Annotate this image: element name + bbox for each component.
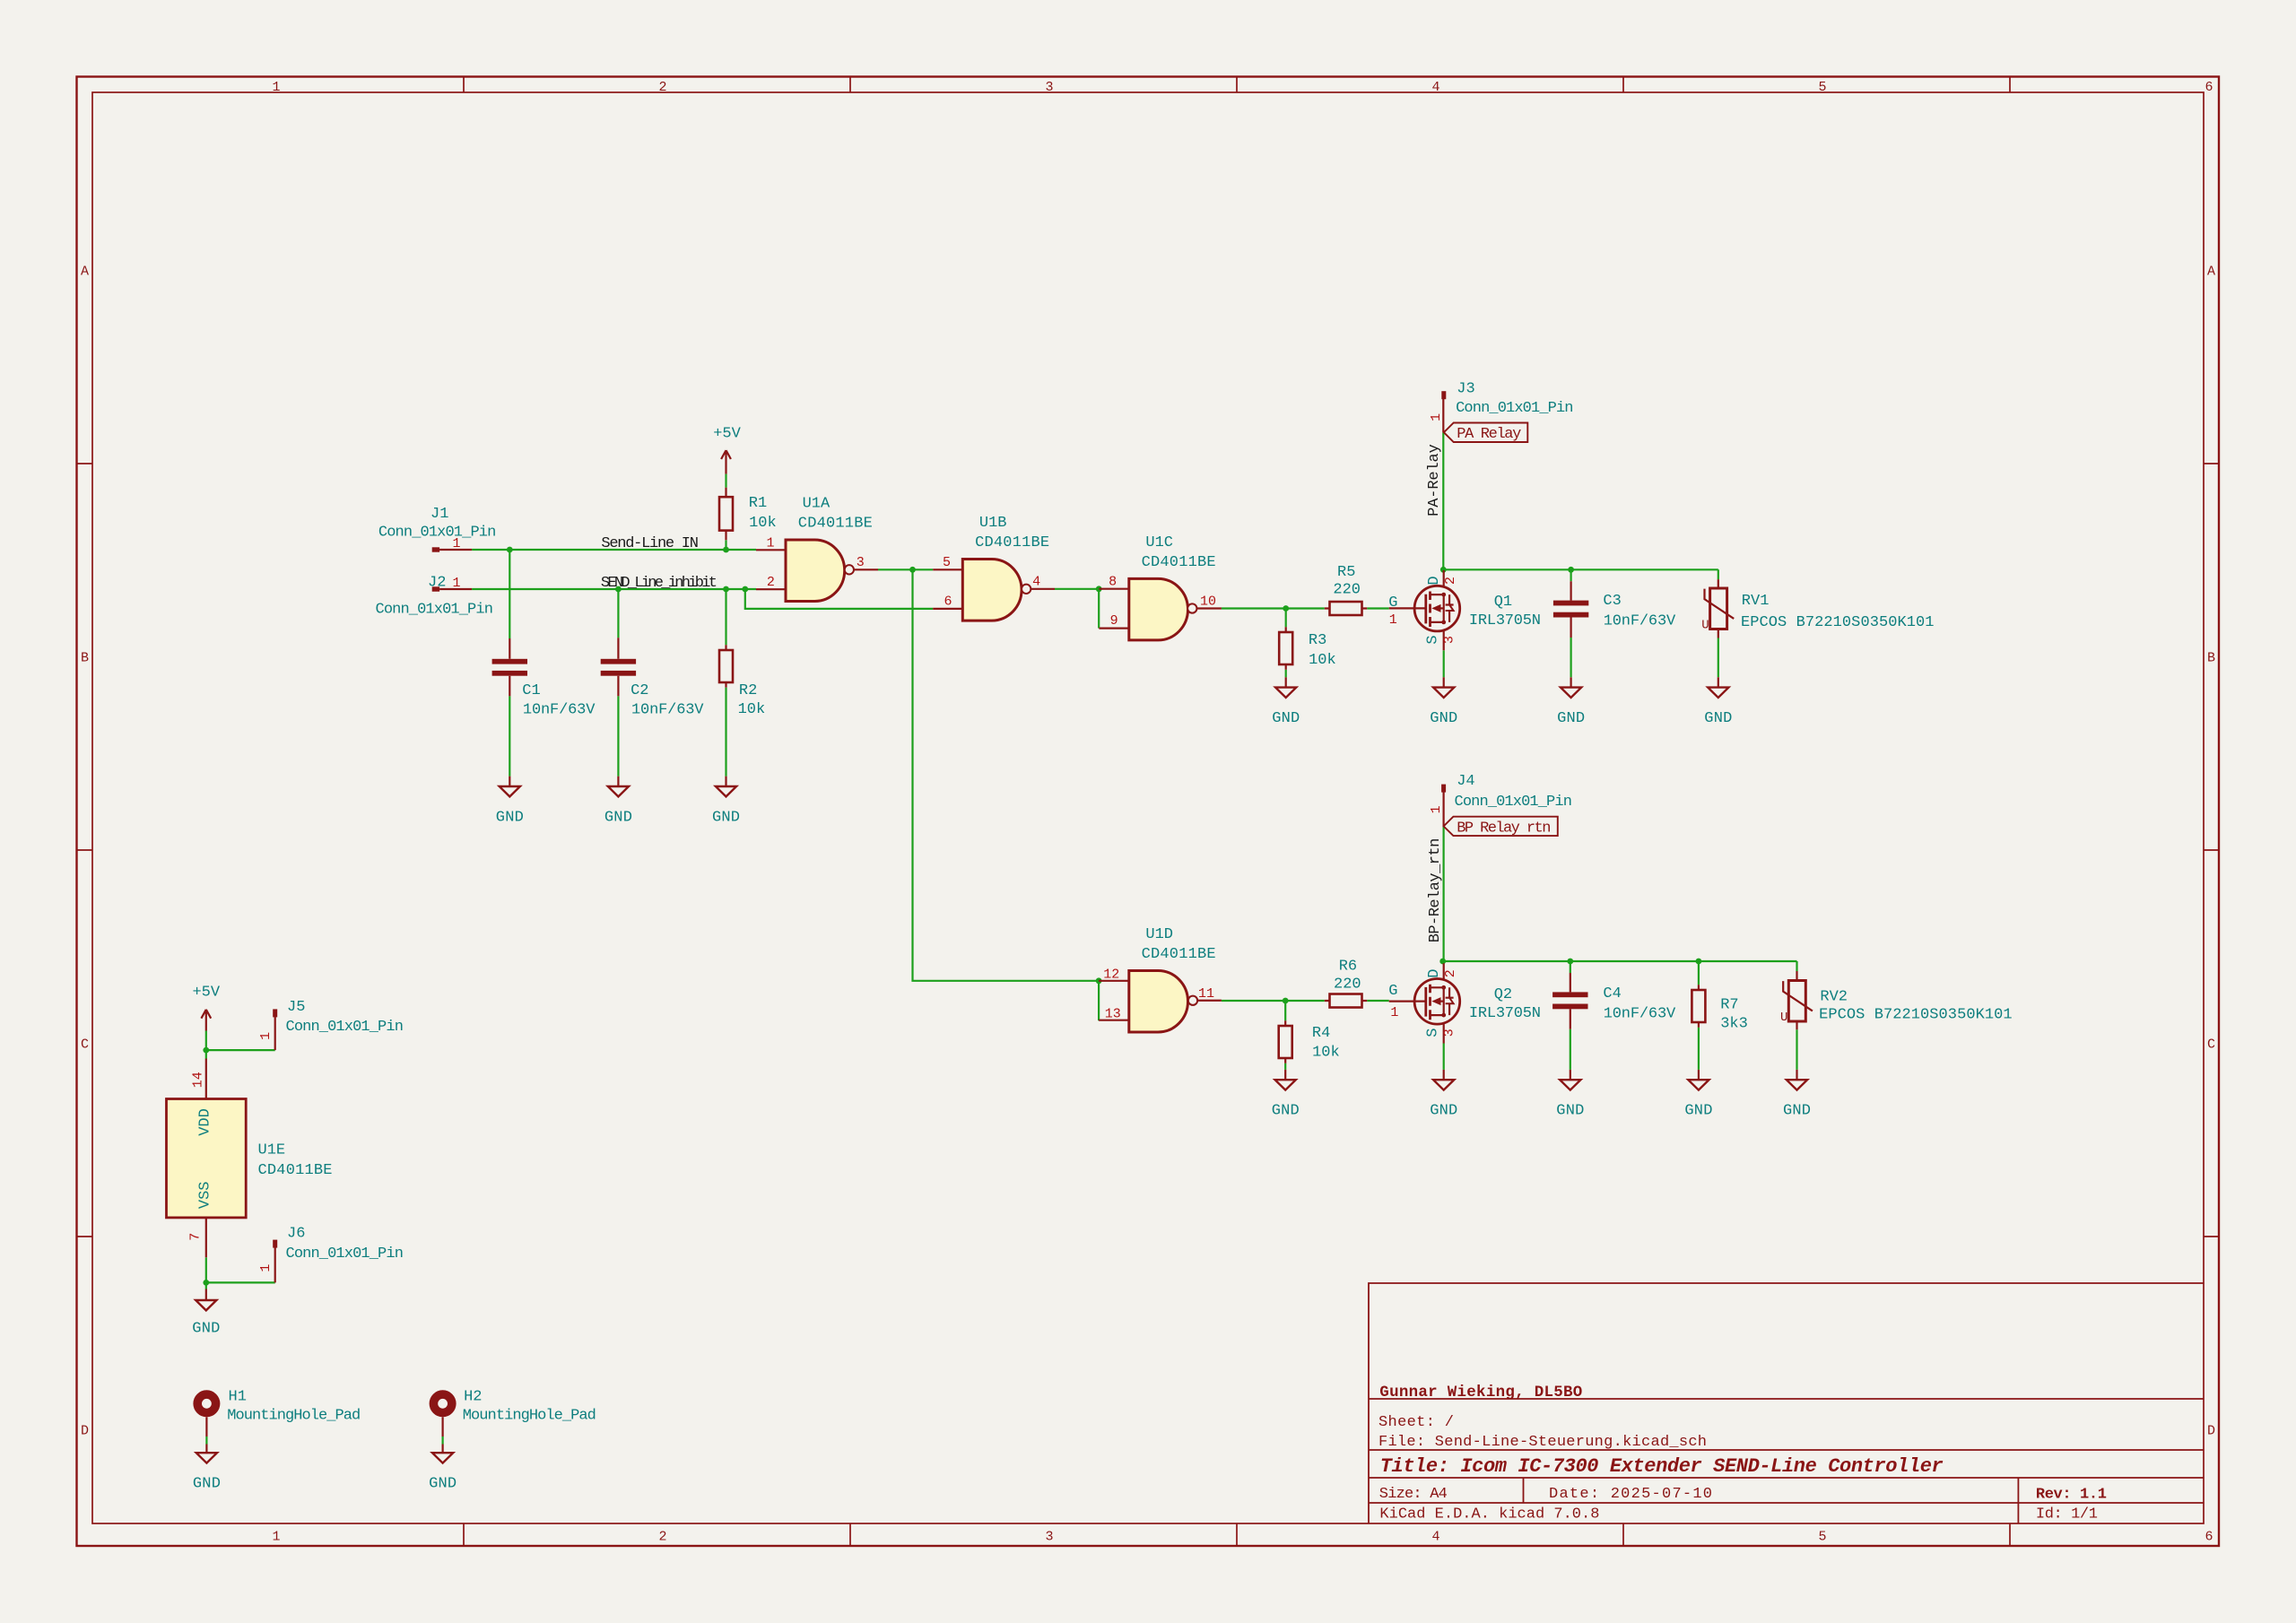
wire vertical to C2 (617, 589, 619, 638)
wire long vertical to U1D (913, 569, 1100, 981)
svg-text:GND: GND (192, 1321, 220, 1338)
svg-text:GND: GND (1556, 1103, 1584, 1120)
svg-text:10nF/63V: 10nF/63V (1604, 1005, 1676, 1022)
wire C3 stubs (1570, 569, 1571, 677)
svg-text:C1: C1 (522, 682, 540, 699)
ground GND (R2) (712, 777, 740, 827)
node junction Q2 drain (1439, 959, 1446, 965)
svg-text:A: A (2207, 265, 2215, 280)
ground GND (C1) (496, 777, 524, 827)
svg-text:R3: R3 (1309, 632, 1326, 649)
NAND gate U1A CD4011BE (756, 495, 878, 601)
svg-text:CD4011BE: CD4011BE (798, 515, 873, 532)
svg-text:VSS: VSS (197, 1181, 214, 1209)
svg-text:R4: R4 (1312, 1025, 1330, 1042)
svg-text:GND: GND (1684, 1103, 1712, 1120)
wire U1D pin13 drop (1098, 981, 1100, 1020)
connector J1 Conn_01x01_Pin (378, 506, 496, 552)
svg-text:5: 5 (1818, 1530, 1826, 1545)
svg-text:D: D (81, 1424, 89, 1439)
svg-text:G: G (1388, 983, 1397, 1000)
wire C4 stubs (1570, 961, 1571, 1070)
svg-text:Send-Line IN: Send-Line IN (601, 535, 699, 552)
connector J6 Conn_01x01_Pin (258, 1226, 404, 1283)
svg-text:J6: J6 (287, 1226, 305, 1243)
svg-text:B: B (81, 651, 89, 666)
svg-text:1: 1 (452, 536, 460, 551)
node junction U1A out (909, 567, 916, 573)
ground GND (RV1) (1704, 677, 1732, 727)
svg-text:J5: J5 (287, 999, 305, 1016)
svg-text:8: 8 (1109, 575, 1117, 590)
svg-text:File: Send-Line-Steuerung.kica: File: Send-Line-Steuerung.kicad_sch (1378, 1434, 1707, 1451)
connector H2 MountingHole_Pad (433, 1389, 596, 1437)
svg-text:Q1: Q1 (1494, 594, 1512, 611)
wire R7 stubs (1698, 961, 1700, 1070)
svg-text:1: 1 (1429, 805, 1444, 813)
power +5V (left) (192, 985, 220, 1031)
svg-text:Conn_01x01_Pin: Conn_01x01_Pin (1455, 794, 1572, 811)
node junction R1 (723, 547, 729, 553)
node junction J5/+5V (203, 1047, 209, 1054)
svg-text:A: A (81, 265, 89, 280)
svg-text:Sheet: /: Sheet: / (1378, 1414, 1454, 1431)
resistor R7 3k3 (1692, 985, 1747, 1032)
connector J4 Conn_01x01_Pin (1429, 773, 1572, 826)
svg-text:RV1: RV1 (1742, 593, 1770, 610)
svg-text:CD4011BE: CD4011BE (258, 1162, 333, 1179)
wire +5V to U1E VDD (205, 1031, 207, 1059)
svg-text:2: 2 (1443, 577, 1458, 585)
svg-text:1: 1 (1390, 1005, 1398, 1020)
svg-text:GND: GND (604, 810, 632, 827)
svg-text:J3: J3 (1457, 380, 1474, 397)
svg-text:GND: GND (1557, 710, 1585, 727)
svg-text:D: D (1426, 576, 1443, 585)
svg-text:U1B: U1B (979, 515, 1007, 532)
svg-text:C: C (2207, 1037, 2215, 1053)
ground GND (R7) (1684, 1070, 1712, 1120)
svg-text:H2: H2 (464, 1389, 482, 1406)
svg-text:5: 5 (943, 555, 951, 570)
svg-text:U1C: U1C (1145, 534, 1173, 551)
svg-text:G: G (1388, 595, 1397, 612)
svg-text:+5V: +5V (192, 985, 220, 1002)
svg-text:C3: C3 (1603, 593, 1621, 610)
ground GND (C2) (604, 777, 632, 827)
svg-text:R7: R7 (1720, 996, 1738, 1013)
wire vertical J1 net to C1 (509, 550, 510, 638)
svg-text:10k: 10k (1312, 1045, 1340, 1062)
svg-text:GND: GND (712, 810, 740, 827)
varistor RV2 EPCOS B72210S0350K101 (1780, 971, 2013, 1029)
connector J2 Conn_01x01_Pin (376, 575, 493, 619)
svg-text:10k: 10k (1309, 652, 1336, 669)
node junction pin6 drop (742, 586, 748, 593)
svg-text:10: 10 (1200, 595, 1216, 610)
resistor R1 10k (719, 474, 777, 541)
wire U1E VSS to GND (205, 1257, 207, 1289)
svg-text:R2: R2 (739, 682, 757, 699)
op-amp U1E CD4011BE power unit (167, 1059, 333, 1258)
svg-text:GND: GND (1783, 1103, 1811, 1120)
svg-text:CD4011BE: CD4011BE (1142, 554, 1216, 571)
svg-text:2: 2 (658, 1530, 666, 1545)
capacitor C4 10nF/63V (1552, 973, 1676, 1029)
wire J4 to drain junction (1442, 826, 1444, 961)
wire RV2 stubs (1796, 961, 1797, 1070)
svg-text:IRL3705N: IRL3705N (1469, 1005, 1541, 1022)
svg-text:C: C (81, 1037, 89, 1053)
svg-text:S: S (1425, 1028, 1442, 1037)
svg-text:Id: 1/1: Id: 1/1 (2036, 1506, 2098, 1523)
ground GND (RV2) (1783, 1070, 1811, 1120)
wire BP drain rail (1443, 960, 1797, 962)
svg-text:1: 1 (452, 576, 460, 591)
wire Send-Line IN (J1 to U1A pin1) (472, 549, 756, 551)
node junction R3 (1283, 605, 1289, 612)
svg-text:2: 2 (767, 575, 775, 590)
wire U1D out to R6 (1222, 1000, 1325, 1002)
svg-text:3: 3 (1045, 1530, 1053, 1545)
ground GND (H2) (429, 1445, 457, 1493)
svg-text:2: 2 (1443, 969, 1458, 977)
node junction C2 (615, 586, 622, 593)
svg-text:BP-Relay_rtn: BP-Relay_rtn (1427, 838, 1444, 943)
svg-text:MountingHole_Pad: MountingHole_Pad (463, 1407, 596, 1424)
wire drop to U1B pin6 (745, 589, 933, 609)
connector H1 MountingHole_Pad (197, 1389, 361, 1437)
NAND gate U1B CD4011BE (933, 515, 1055, 621)
capacitor C1 10nF/63V (492, 638, 596, 777)
svg-text:1: 1 (766, 535, 774, 551)
svg-text:H1: H1 (229, 1389, 247, 1406)
wire R3 top stub (1285, 609, 1287, 628)
svg-text:1: 1 (1389, 612, 1397, 628)
svg-text:EPCOS B72210S0350K101: EPCOS B72210S0350K101 (1741, 614, 1935, 631)
wire Q2 source to GND (1443, 1044, 1445, 1070)
svg-text:Title: Icom IC-7300 Extender S: Title: Icom IC-7300 Extender SEND-Line C… (1380, 1455, 1944, 1478)
varistor RV1 EPCOS B72210S0350K101 (1701, 579, 1934, 638)
ground GND (Q1) (1430, 677, 1457, 727)
wire to R2 top (725, 589, 726, 645)
svg-text:C4: C4 (1603, 985, 1621, 1002)
connector J3 Conn_01x01_Pin (1429, 380, 1574, 432)
svg-text:2: 2 (658, 80, 666, 95)
resistor R4 10k (1279, 1020, 1340, 1063)
TITLE BLOCK (1369, 1283, 2204, 1523)
svg-text:EPCOS B72210S0350K101: EPCOS B72210S0350K101 (1819, 1006, 2013, 1023)
svg-text:Conn_01x01_Pin: Conn_01x01_Pin (286, 1019, 404, 1036)
node junction R7 (1696, 959, 1702, 965)
svg-text:MountingHole_Pad: MountingHole_Pad (227, 1407, 361, 1424)
node hierarchical label PA Relay (1444, 423, 1527, 444)
svg-text:GND: GND (1430, 710, 1457, 727)
wire U1B out to U1C (1055, 588, 1099, 590)
svg-text:GND: GND (193, 1476, 221, 1493)
node hierarchical label BP Relay rtn (1444, 817, 1558, 838)
svg-text:U1E: U1E (258, 1142, 286, 1159)
transistor Q1 IRL3705N (1388, 570, 1541, 650)
node junction C3 (1568, 567, 1574, 573)
svg-text:VDD: VDD (197, 1108, 214, 1136)
svg-text:C2: C2 (631, 682, 648, 699)
svg-text:U: U (1780, 1011, 1787, 1025)
capacitor C3 10nF/63V (1553, 581, 1676, 638)
svg-text:220: 220 (1334, 976, 1361, 994)
node junction U1B out (1096, 586, 1102, 592)
svg-text:Conn_01x01_Pin: Conn_01x01_Pin (1456, 400, 1573, 417)
svg-text:1: 1 (1429, 413, 1444, 421)
svg-text:CD4011BE: CD4011BE (975, 534, 1049, 551)
wire R4 top stub (1284, 1001, 1286, 1020)
ground GND (H1) (193, 1445, 221, 1493)
svg-text:Date: 2025-07-10: Date: 2025-07-10 (1549, 1486, 1712, 1503)
ground GND (R4) (1272, 1070, 1300, 1120)
node junction R4 (1283, 998, 1289, 1004)
svg-text:3: 3 (1442, 636, 1457, 644)
resistor R2 10k (719, 645, 765, 776)
svg-text:10nF/63V: 10nF/63V (523, 701, 596, 718)
svg-text:CD4011BE: CD4011BE (1142, 946, 1216, 963)
svg-text:6: 6 (2205, 1530, 2213, 1545)
svg-text:D: D (2207, 1424, 2215, 1439)
svg-text:U1A: U1A (803, 495, 831, 512)
svg-text:11: 11 (1198, 986, 1214, 1002)
resistor R3 10k (1279, 627, 1336, 669)
wire R6 to Q2 gate (1367, 1000, 1389, 1002)
node junction C4 (1567, 959, 1573, 965)
wire H1 to GND (205, 1436, 207, 1445)
wire Q1 source to GND (1443, 650, 1445, 677)
svg-text:12: 12 (1103, 968, 1119, 983)
svg-text:D: D (1426, 969, 1443, 978)
svg-text:1: 1 (258, 1264, 274, 1272)
svg-text:Rev: 1.1: Rev: 1.1 (2036, 1487, 2107, 1504)
power +5V (top) (713, 426, 741, 474)
svg-text:B: B (2207, 651, 2215, 666)
svg-text:14: 14 (191, 1072, 206, 1088)
svg-text:Gunnar Wieking, DL5BO: Gunnar Wieking, DL5BO (1379, 1384, 1582, 1402)
svg-text:5: 5 (1818, 80, 1826, 95)
svg-text:6: 6 (2205, 80, 2213, 95)
ground GND (U1E) (192, 1289, 220, 1338)
svg-text:R1: R1 (749, 495, 767, 512)
svg-text:4: 4 (1431, 80, 1439, 95)
svg-text:Conn_01x01_Pin: Conn_01x01_Pin (376, 602, 493, 619)
svg-text:9: 9 (1110, 613, 1118, 629)
svg-text:PA-Relay: PA-Relay (1426, 444, 1443, 516)
svg-text:BP Relay rtn: BP Relay rtn (1457, 820, 1551, 837)
svg-text:3k3: 3k3 (1720, 1016, 1748, 1033)
svg-text:6: 6 (944, 594, 952, 609)
wire J6 branch (206, 1281, 275, 1283)
wire R4 bottom to GND (1284, 1063, 1286, 1070)
svg-text:U: U (1701, 619, 1709, 633)
NAND gate U1D CD4011BE (1099, 926, 1222, 1032)
svg-text:3: 3 (1442, 1028, 1457, 1037)
wire U1C pin9 drop (1098, 589, 1100, 629)
ground GND (C3) (1557, 677, 1585, 727)
svg-text:GND: GND (1704, 710, 1732, 727)
node junction Q1 drain (1440, 567, 1447, 573)
svg-text:Conn_01x01_Pin: Conn_01x01_Pin (378, 524, 496, 541)
svg-text:4: 4 (1032, 575, 1040, 590)
svg-text:10k: 10k (749, 515, 777, 532)
svg-text:R5: R5 (1337, 564, 1355, 581)
wire U1C out to R5 (1222, 607, 1325, 609)
node junction U1D pin12 (1096, 977, 1102, 984)
svg-text:GND: GND (1272, 1103, 1300, 1120)
svg-text:220: 220 (1333, 582, 1361, 599)
svg-text:GND: GND (1272, 710, 1300, 727)
svg-text:J1: J1 (430, 506, 448, 523)
ground GND (R3) (1272, 677, 1300, 727)
svg-text:U1D: U1D (1145, 926, 1173, 943)
resistor R6 220 (1325, 959, 1367, 1008)
svg-text:R6: R6 (1339, 959, 1357, 976)
wire R5 to Q1 gate (1367, 607, 1389, 609)
svg-text:Conn_01x01_Pin: Conn_01x01_Pin (286, 1245, 404, 1263)
svg-text:10k: 10k (738, 701, 766, 718)
svg-text:KiCad E.D.A. kicad 7.0.8: KiCad E.D.A. kicad 7.0.8 (1379, 1506, 1599, 1523)
svg-text:7: 7 (188, 1233, 204, 1241)
svg-text:IRL3705N: IRL3705N (1469, 612, 1541, 629)
svg-text:PA Relay: PA Relay (1457, 426, 1521, 443)
connector J5 Conn_01x01_Pin (258, 999, 404, 1050)
wire U1A out to U1B pin5 (878, 568, 933, 570)
capacitor C2 10nF/63V (601, 638, 705, 776)
svg-text:GND: GND (496, 810, 524, 827)
svg-text:1: 1 (272, 1530, 280, 1545)
ground GND (C4) (1556, 1070, 1584, 1120)
node junction J1/C1 (507, 547, 513, 553)
svg-text:3: 3 (857, 555, 865, 570)
svg-text:J4: J4 (1457, 773, 1474, 790)
svg-text:10nF/63V: 10nF/63V (631, 701, 704, 718)
svg-text:GND: GND (1430, 1103, 1457, 1120)
wire SEND_Line_inhibit (J2 to U1A pin2) (472, 588, 756, 590)
svg-text:10nF/63V: 10nF/63V (1604, 612, 1676, 629)
wire RV1 stubs (1718, 569, 1719, 677)
wire H2 to GND (442, 1436, 444, 1445)
svg-text:GND: GND (429, 1476, 457, 1493)
svg-text:+5V: +5V (713, 426, 741, 443)
svg-text:Q2: Q2 (1494, 986, 1512, 1003)
resistor R5 220 (1325, 564, 1367, 615)
svg-text:Size: A4: Size: A4 (1379, 1486, 1448, 1503)
wire R1 bottom stub (725, 540, 726, 550)
transistor Q2 IRL3705N (1388, 963, 1541, 1043)
svg-text:13: 13 (1105, 1007, 1121, 1022)
svg-text:S: S (1425, 635, 1442, 644)
svg-text:4: 4 (1431, 1530, 1439, 1545)
wire PA drain rail (1443, 568, 1718, 570)
NAND gate U1C CD4011BE (1099, 534, 1222, 640)
ground GND (Q2) (1430, 1070, 1457, 1120)
wire J3 to drain junction (1442, 432, 1444, 569)
wire J5 branch (206, 1049, 275, 1051)
wire R3 bottom to GND (1285, 670, 1287, 678)
node junction R2 (723, 586, 729, 593)
svg-text:J2: J2 (428, 575, 446, 592)
svg-text:3: 3 (1045, 80, 1053, 95)
svg-text:SEND_Line_inhibit: SEND_Line_inhibit (601, 575, 717, 592)
svg-text:RV2: RV2 (1820, 988, 1848, 1005)
svg-text:1: 1 (272, 80, 280, 95)
node junction J6/GND (203, 1280, 209, 1286)
svg-text:1: 1 (258, 1032, 274, 1040)
